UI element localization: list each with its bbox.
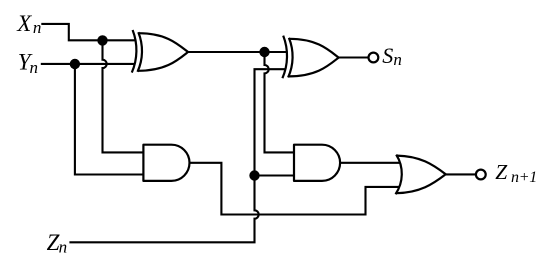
svg-text:Z: Z: [495, 160, 508, 184]
svg-text:n: n: [59, 238, 68, 257]
svg-text:n+1: n+1: [511, 169, 537, 186]
svg-text:S: S: [382, 43, 393, 68]
svg-text:X: X: [16, 11, 32, 36]
svg-text:n: n: [30, 58, 39, 77]
svg-text:n: n: [33, 18, 42, 37]
svg-text:n: n: [393, 50, 402, 69]
